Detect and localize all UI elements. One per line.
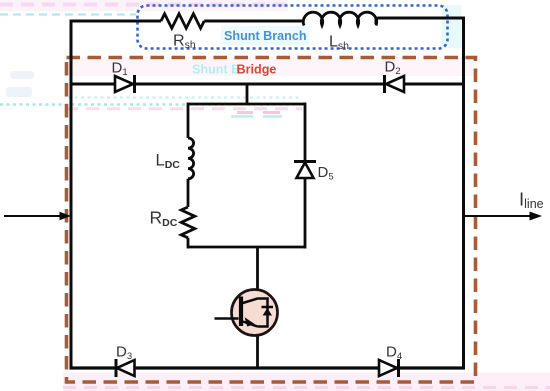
wire inner left lower — [187, 238, 190, 249]
wire right vertical — [462, 17, 465, 370]
transistor Q1 IGBT — [215, 290, 278, 336]
resistor R1 Rsh zigzag — [161, 14, 204, 28]
resistor RDC zigzag — [181, 207, 195, 238]
wire top right segment — [376, 18, 464, 24]
wire top left segment — [71, 20, 161, 23]
wire left vertical — [70, 20, 73, 369]
shunt branch box (blue dashed) — [138, 6, 448, 49]
inductor LDC bumps — [188, 138, 194, 179]
ghost cyan box behind Shunt Branch text — [221, 26, 309, 45]
arrow Iline — [464, 212, 542, 221]
ghost smudges left — [6, 71, 34, 97]
inductor Lsh humps — [303, 12, 376, 25]
ghost cyan dashed line top-left — [0, 13, 136, 15]
ghost pink band top — [0, 0, 288, 11]
ghost cyan dotted line B — [0, 103, 305, 106]
diode D4 — [379, 359, 399, 377]
diode D1 — [115, 75, 135, 93]
wire emitter stub — [256, 327, 259, 369]
svg-text:Shunt B: Shunt B — [192, 63, 240, 77]
wire bottom rail — [70, 366, 466, 369]
ghost pink band behind bridge label row — [68, 57, 474, 76]
inner loop bottom wire — [188, 246, 305, 249]
svg-text:Shunt Branch: Shunt Branch — [224, 29, 307, 43]
ghost pink band bottom — [63, 373, 550, 391]
ghost dashes near node — [231, 113, 282, 117]
diode D5 — [294, 162, 316, 179]
diode D2 — [385, 75, 405, 93]
wire inner left upper — [187, 103, 190, 139]
wire top middle segment — [204, 20, 304, 23]
wire inner right lower — [304, 178, 307, 249]
arrow input left — [4, 212, 71, 221]
diode D3 — [116, 359, 135, 377]
wire collector stub — [256, 247, 259, 299]
ghost pink dashed line mid — [65, 107, 302, 110]
wire diode rail — [71, 83, 464, 86]
wire stub rail to loop — [246, 84, 249, 104]
inner loop top wire — [188, 103, 305, 106]
ghost cyan band at blue box right — [442, 5, 462, 48]
wire inner left middle — [187, 179, 190, 207]
bridge box (red dashed) — [67, 58, 476, 383]
svg-text:Bridge: Bridge — [237, 63, 277, 77]
wire inner right upper — [304, 103, 307, 162]
ghost cyan dotted line A — [68, 96, 302, 98]
